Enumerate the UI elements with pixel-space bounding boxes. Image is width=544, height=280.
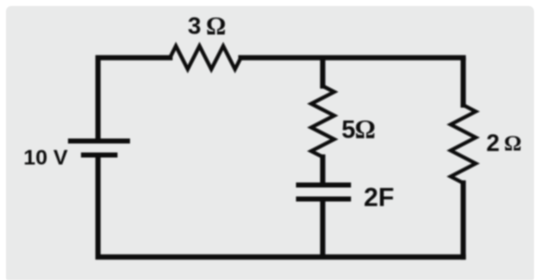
wire middle bottom stub — [320, 200, 325, 255]
wire left-bottom segment — [98, 156, 463, 257]
svg-text:Ω: Ω — [504, 131, 522, 156]
svg-text:5: 5 — [342, 116, 356, 144]
wire right top stub — [461, 60, 466, 105]
capacitor C1 top plate — [296, 183, 351, 188]
svg-text:2: 2 — [486, 130, 499, 157]
resistor R2 5-ohm zigzag — [311, 86, 334, 157]
resistor R1 3-ohm zigzag — [170, 46, 241, 69]
svg-text:2F: 2F — [364, 182, 394, 212]
battery V1 short plate — [81, 153, 118, 158]
resistor R3 2-ohm zigzag — [451, 105, 476, 183]
wire middle between resistor and capacitor — [320, 157, 325, 184]
wire middle top stub — [320, 60, 325, 86]
wire top-left segment — [98, 58, 170, 139]
capacitor C1 bottom plate — [296, 197, 351, 202]
wire top-right segment — [241, 55, 463, 60]
svg-text:Ω: Ω — [206, 13, 226, 40]
svg-text:Ω: Ω — [355, 115, 376, 144]
battery V1 long plate — [68, 139, 130, 144]
wire right bottom stub — [461, 183, 466, 257]
svg-text:3: 3 — [188, 13, 201, 40]
svg-text:10 V: 10 V — [24, 146, 69, 170]
